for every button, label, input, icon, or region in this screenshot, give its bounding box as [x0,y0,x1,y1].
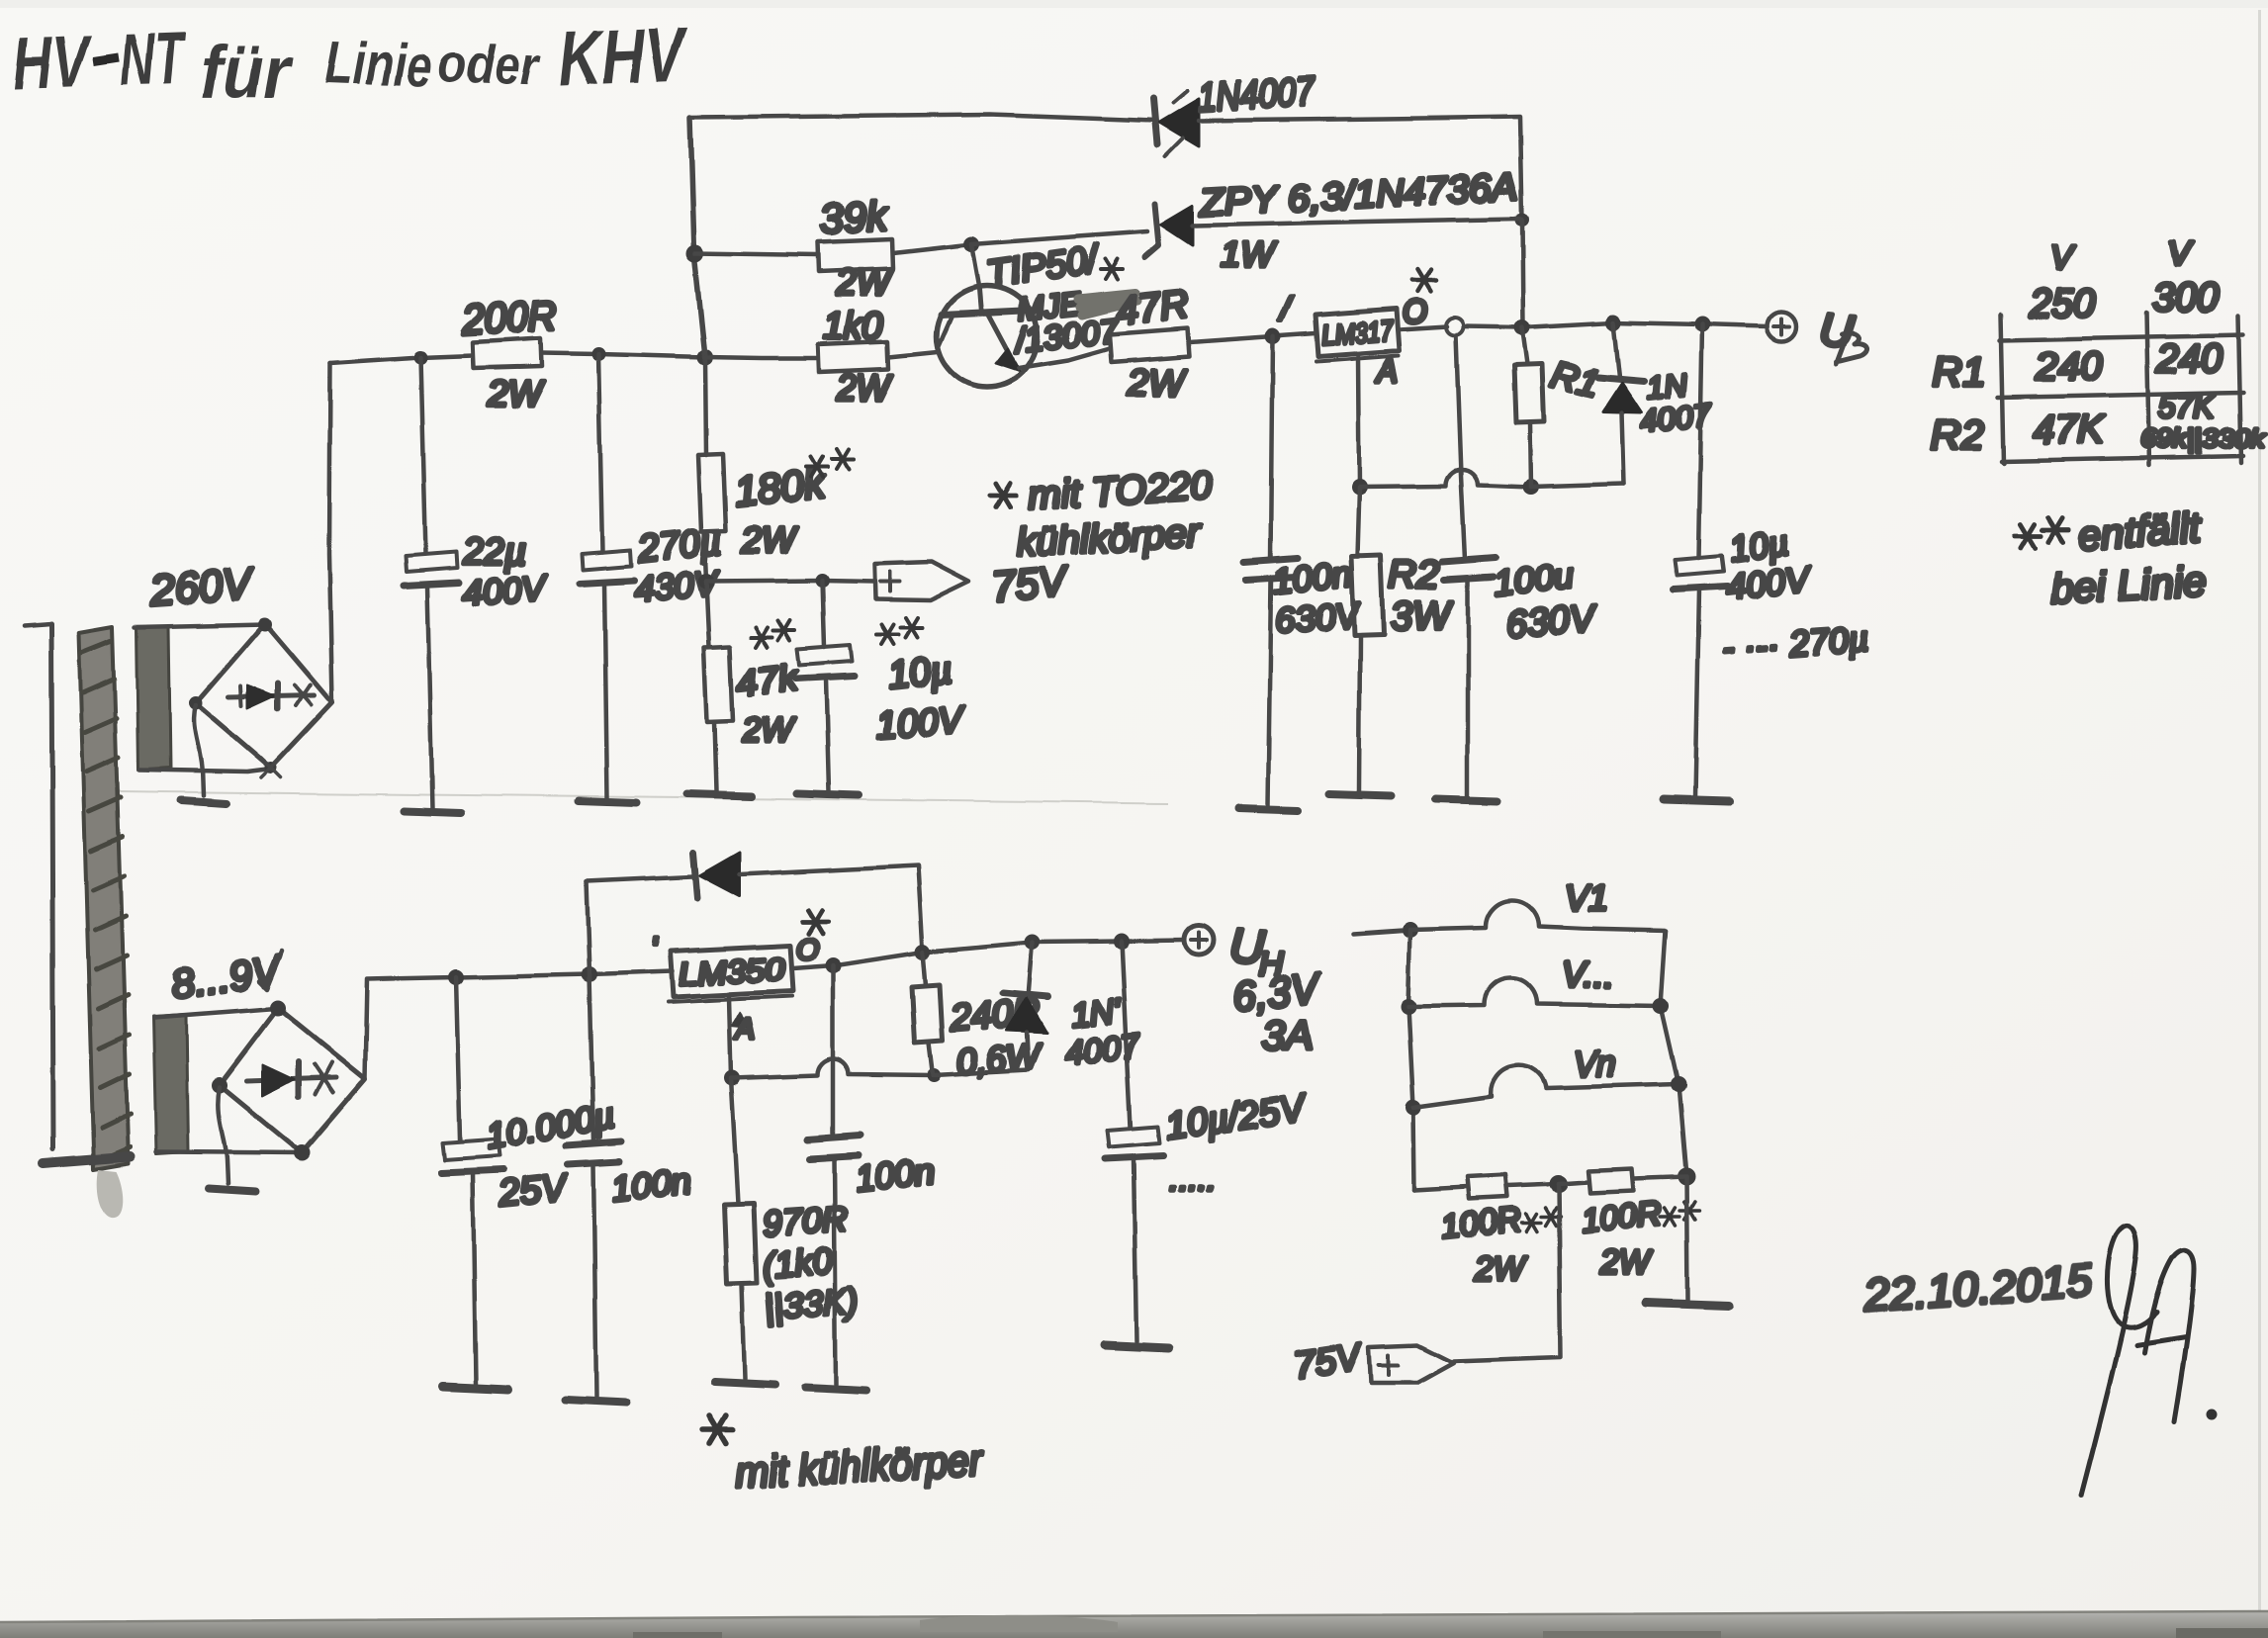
resistor 1k0 [818,341,889,372]
svg-text:250: 250 [2029,282,2096,325]
node 100n2 branch [825,957,841,973]
wire adj rail to diode bottom [1531,484,1624,487]
svg-text:47k: 47k [735,658,801,705]
heater V2 rung [1408,978,1661,1006]
resistor 47R [1110,328,1189,362]
right paper edge line [2258,10,2261,1622]
table line top [2000,335,2243,340]
BR1 corner node dots [258,617,272,631]
wire right bend to main rail [1522,220,1523,326]
regulator U1 LM317 [1315,309,1400,362]
ground 100n630V [1238,809,1298,811]
svg-text:260V: 260V [147,560,257,615]
wire rail to diode2 bottom [934,1070,1029,1075]
svg-text:oder: oder [437,34,543,97]
capacitor 10000u/25V [441,1139,504,1385]
wire bottom rail [456,971,673,977]
node 10u400V branch [1694,317,1710,332]
svg-text:U: U [1817,303,1856,357]
wire collector down to transistor [971,244,979,289]
svg-text:630V: 630V [1505,598,1599,646]
svg-text:A: A [734,1013,756,1046]
capacitor 100n lm350 in [566,1141,621,1397]
wire R2 to ground [1359,635,1360,791]
svg-text:2W: 2W [741,519,798,560]
capacitor 10u/25V [1106,1127,1163,1341]
wire 240R top [923,952,926,986]
svg-text:47R: 47R [1114,283,1191,333]
wire 180k to node [704,531,706,582]
wire 970R stub [731,1078,738,1203]
zener diode ZPY6,3 [1145,204,1193,257]
note star mit TO220 [990,483,1016,506]
wire BR2 out to rail [365,977,456,1078]
svg-text:O: O [1403,294,1427,329]
wire 10u25V branch [1122,941,1131,1128]
node adj rail left [1351,479,1367,495]
bottom scanner strip [0,1612,2268,1638]
wire to junction [1507,1184,1559,1186]
wire main rail left section [330,355,473,363]
BR2 corner nodes [270,1000,286,1016]
wire heater ground stub [1686,1177,1687,1300]
svg-text:400V: 400V [461,567,550,613]
svg-text:V1: V1 [1565,877,1608,918]
capacitor 100u/630V [1442,558,1496,797]
ground heater [1646,1303,1729,1306]
wire main rail [542,353,705,357]
wire out to UB [1464,322,1767,327]
wire 240R bottom [929,1043,933,1075]
BR2 inner diode [247,1061,336,1097]
wire diode2 top [1029,942,1033,991]
note star kuehlkoerper [703,1416,734,1444]
svg-text:V: V [2168,235,2194,273]
svg-text:100u: 100u [1493,555,1576,603]
wire diode branch down [1613,322,1619,378]
svg-text:970R: 970R [762,1198,850,1244]
svg-text:2W: 2W [741,712,795,750]
ground 100n out [805,1388,866,1391]
node center vertical [697,349,713,365]
winding frame bottom wire [139,769,271,772]
node diode branch [1605,315,1621,330]
ground 100u630V [1436,799,1497,801]
wire 100Rb to right vertical [1634,1177,1686,1179]
BR1 ground wire [194,705,203,795]
capacitor 270u/430V [580,550,634,799]
table line vert right [2238,317,2241,463]
wire 100u630V branch from out node [1456,335,1465,560]
stars 180k [806,457,828,477]
ground 10000u [443,1387,508,1390]
pin label A lm350 [730,1011,756,1046]
stars 47k [751,627,772,647]
ground 10u400V [1664,799,1729,801]
svg-text:22µ: 22µ [462,531,526,573]
ground 100n [566,1400,627,1403]
wire R1 branch [1522,327,1527,364]
node adj rail R1 [1523,479,1539,495]
table line mid [1998,393,2243,398]
svg-text:R1: R1 [1933,348,1986,395]
wire 100n630V branch [1271,336,1273,560]
node diode2 [1025,934,1041,950]
svg-text:100n: 100n [1271,553,1354,601]
wire 970R to ground [742,1284,745,1379]
BR1 ground [180,800,226,803]
wire top 1N4007 line [690,115,1155,121]
svg-text:(1k0: (1k0 [762,1240,834,1286]
wire loop top [587,876,692,881]
transformer foot [44,1156,131,1163]
resistor 200R [473,338,542,368]
resistor 47k [704,647,733,722]
svg-text:A: A [1375,353,1398,389]
svg-text:V...: V... [1563,955,1613,995]
wire heater feed stub [1353,930,1410,934]
regulator U2 LM350 [669,946,792,1002]
wire top line right + bend down [1199,117,1522,219]
wire 10000u branch [456,977,460,1140]
node R1 branch [1514,319,1530,335]
wire 39k line [695,253,818,255]
svg-text:2W: 2W [1599,1244,1654,1282]
node heater right bottom [1678,1168,1695,1186]
stars 100R b [1660,1208,1679,1226]
wire 22u branch [420,357,425,554]
svg-text:100V: 100V [874,699,968,747]
star TIP50 [1101,259,1123,279]
title HV-NT [12,10,689,113]
svg-text:1k0: 1k0 [823,306,883,347]
svg-text:2W: 2W [488,373,545,413]
wire 47k to ground [714,722,716,791]
wire 180k branch top [705,357,706,455]
diode 1N4007 top [1153,91,1199,156]
stars 100R a [1521,1214,1541,1231]
resistor R1 [1514,364,1544,422]
node heater right mid [1653,998,1669,1014]
star LM350 [802,910,828,934]
node heater left low [1406,1099,1421,1115]
winding2 frame top wire [154,1008,283,1018]
BR2 ground [208,1188,255,1191]
diode loop LM350 [693,853,740,898]
node heater right low [1671,1076,1686,1092]
wire 10u400V branch [1698,324,1702,558]
wire 39k to collector node [893,244,971,253]
svg-text:300: 300 [2152,276,2219,319]
svg-text:KHV: KHV [558,10,690,102]
svg-text:2W: 2W [836,367,893,408]
transistor Q1 TIP50 [937,286,1038,387]
resistor 39k [818,239,893,272]
svg-text:O: O [795,934,818,966]
svg-text:.....: ..... [1169,1161,1216,1199]
heater Vn rung [1413,1065,1678,1107]
svg-text:25V: 25V [497,1167,572,1216]
terminal UB plus [1767,312,1796,341]
wire heater bottom left segment [1414,1187,1468,1190]
wire top loop vertical [690,118,705,357]
svg-text:1N': 1N' [1069,992,1124,1035]
diode 1N4007 lm350 [1003,993,1048,1070]
svg-text:47K: 47K [2034,409,2106,452]
svg-text:Linie: Linie [324,30,433,100]
capacitor 100n/630V [1244,558,1298,806]
resistor 100R b [1588,1169,1634,1193]
node adj rail lm350 [724,1070,740,1086]
svg-text:200R: 200R [460,292,558,343]
resistor 970R [724,1203,757,1284]
svg-text:69k||330k: 69k||330k [2140,423,2267,453]
wire LM317 adj down [1358,357,1359,487]
svg-text:LM317: LM317 [1320,316,1396,352]
ground 10u25V [1104,1345,1169,1348]
svg-text:630V: 630V [1274,594,1363,641]
wire LM350 adj down [729,997,731,1077]
wire 75V row [706,581,874,582]
node 22u branch [413,350,427,364]
wire zener to right bend [1193,219,1520,226]
svg-text:entfällt: entfällt [2076,503,2204,559]
wire junction to 100Rb [1559,1182,1588,1184]
connector arrow 75V [874,562,969,600]
svg-text:NT: NT [119,17,189,101]
svg-text:57K: 57K [2158,389,2217,424]
svg-text:R2: R2 [1931,411,1984,458]
wire main rail to 1k [705,357,818,358]
stars 10u100V [877,625,899,645]
svg-text:75V: 75V [990,557,1072,610]
wire 10u100V branch [823,581,825,647]
svg-text:Vn: Vn [1573,1044,1616,1084]
bridge rectifier BR2 [220,1008,365,1152]
node 10000u branch [448,969,464,985]
wire R1 to rail [1530,422,1531,487]
node 10u25V [1114,933,1130,949]
winding 8-9V block [153,1015,188,1153]
diode 1N4007 across LM317 [1598,378,1644,484]
svg-text:für: für [200,31,295,113]
wire adj rail with hop [1359,470,1531,487]
wire LM317 out [1400,326,1447,329]
capacitor 10u/100V [795,645,855,791]
table line vert mid [2146,313,2149,465]
node rail 240R [927,1068,941,1082]
node heater center junction [1550,1175,1568,1193]
capacitor 22u/400V [404,552,459,809]
node heater left top [1403,922,1418,938]
wire bridge1 + output up to main rail [329,363,332,702]
primary stub wire [24,624,51,626]
wire adj rail lm350 with hop [732,1059,934,1078]
wire 270u branch [598,354,602,552]
svg-text:2W: 2W [1127,363,1187,405]
resistor 180k [698,454,726,531]
wire R2 branch [1357,487,1359,556]
svg-text:100n: 100n [610,1160,693,1209]
resistor 240R [912,985,943,1043]
svg-text:3W: 3W [1391,594,1453,638]
ground 22u [404,811,461,813]
wire zener line [971,231,1147,244]
node 100n630V branch [1265,328,1281,344]
svg-text:1W: 1W [1221,234,1277,275]
svg-text:100n: 100n [854,1150,937,1199]
ground 270u [579,801,636,803]
heater V1 rung [1410,901,1666,931]
connector arrow 75V bottom [1369,1345,1454,1383]
svg-text:0,6W: 0,6W [955,1036,1044,1082]
primary winding vertical [51,624,53,1149]
transformer core bar [79,627,131,1218]
wire 1k to base [889,352,938,357]
capacitor 100n lm350 out [807,1136,861,1385]
wire loop vertical up [587,881,590,974]
table line bottom [2002,456,2243,461]
star LM317 [1412,270,1436,292]
node 75V row [698,574,714,590]
signature [2081,1226,2215,1496]
svg-text:10µ: 10µ [887,649,954,696]
ground R2 [1329,794,1391,796]
ground 47k [686,794,752,796]
svg-text:HV: HV [12,20,94,105]
svg-text:V: V [2049,239,2075,277]
node heater left mid [1401,998,1416,1014]
BR2 ground wire [218,1087,227,1183]
winding frame top wire [135,624,265,627]
node ZPY joins [1515,213,1529,227]
svg-text:240: 240 [2035,345,2102,389]
wire 100n branch down [590,974,593,1143]
ground 970R [714,1382,775,1385]
resistor R2 [1351,555,1384,635]
svg-text:1N4007: 1N4007 [1197,70,1317,120]
svg-text:3A: 3A [1262,1011,1313,1057]
wire loop top right + down [740,865,923,952]
terminal UH plus [1184,925,1214,955]
note stars entfaellt [2015,524,2041,548]
svg-text:4007: 4007 [1063,1027,1142,1072]
wire 47k branch [706,582,709,647]
svg-text:R2: R2 [1389,553,1439,596]
wire heater left vertical [1408,930,1414,1190]
winding2 frame bottom wire [156,1151,302,1152]
svg-text:||33K): ||33K) [764,1280,860,1327]
wire heater right vertical [1661,931,1686,1177]
BR1 inner diode [228,683,315,709]
wire emitter to 47R [1019,348,1110,368]
bridge rectifier BR1 [196,623,332,768]
node 39k line [686,244,704,262]
node open circle output [1446,318,1464,335]
svg-text:240: 240 [2155,337,2223,381]
node 10u100V [816,574,830,588]
resistor 100R a [1468,1175,1507,1199]
node 240R loop [915,944,931,959]
capacitor 10u/400V [1674,556,1727,797]
wire 47R to LM317 [1189,333,1315,342]
node 100n loop branch [582,966,597,982]
svg-text:2W: 2W [1473,1250,1527,1288]
svg-text:LM350: LM350 [678,951,784,992]
svg-text:2W: 2W [836,262,893,303]
ground 10u100V [797,793,859,795]
node collector [963,236,979,252]
table line vert left [2001,315,2004,463]
svg-text:39k: 39k [819,192,890,242]
winding 260V block [136,626,170,770]
node 270u branch [591,347,605,361]
wire LM350 out [792,940,1183,968]
wire junction down to 75V [1454,1184,1561,1361]
wire 100n2 down [831,965,836,1137]
svg-text:bei Linie: bei Linie [2049,558,2207,612]
